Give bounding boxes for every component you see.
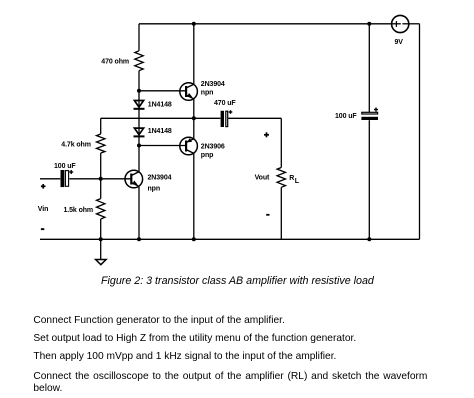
- transistor Q1 2N3904: [180, 83, 198, 101]
- wire mid rail left: [101, 117, 194, 119]
- svg-text:2N3904: 2N3904: [201, 81, 225, 88]
- svg-text:1N4148: 1N4148: [148, 102, 172, 109]
- node top-C: [192, 22, 196, 26]
- body instructions text: [33, 312, 427, 395]
- resistor RL: [277, 168, 285, 188]
- node output mid: [192, 116, 196, 120]
- diode D1 1N4148: [134, 101, 145, 109]
- source V1 9V: [391, 15, 409, 32]
- diode D2 1N4148: [134, 128, 145, 136]
- wire Q2 base: [139, 145, 186, 147]
- node bottom-A: [99, 237, 103, 241]
- label minus vout: [266, 214, 269, 216]
- svg-text:4.7k ohm: 4.7k ohm: [61, 141, 91, 148]
- transistor Q2 2N3906: [180, 137, 198, 155]
- label plus vout: [264, 132, 269, 137]
- wire column A upper: [100, 118, 102, 134]
- wire C1 to node A: [69, 178, 100, 180]
- capacitor C3 100uF rail: [361, 108, 378, 121]
- svg-text:1N4148: 1N4148: [148, 128, 172, 135]
- node Vin-A: [99, 177, 103, 181]
- wire Q3 emitter to bottom: [138, 186, 140, 239]
- node Q1 base: [137, 89, 141, 93]
- wire node to C2: [194, 117, 221, 119]
- svg-text:R: R: [289, 175, 294, 182]
- resistor R470 470 ohm: [135, 51, 143, 71]
- wire column E lower: [368, 120, 370, 239]
- wire 4.7k to Vin node: [100, 153, 102, 179]
- label Vin minus: [41, 228, 44, 230]
- capacitor C2 470uF: [221, 110, 233, 127]
- wire top rail: [139, 23, 392, 25]
- wire Vin input: [40, 178, 60, 180]
- svg-text:100 uF: 100 uF: [335, 113, 357, 120]
- node Q2 base: [137, 144, 141, 148]
- svg-text:Vout: Vout: [255, 175, 270, 182]
- wire Q3 base: [101, 178, 132, 180]
- wire 470ohm through diodes to Q3 collector: [138, 71, 140, 172]
- wire RL column upper: [280, 118, 282, 167]
- capacitor C1 100uF input: [61, 170, 74, 187]
- svg-text:1.5k ohm: 1.5k ohm: [64, 207, 94, 214]
- wire Q1 base: [139, 90, 186, 92]
- wire Q2 collector to bottom: [193, 153, 195, 239]
- node junction dots: [99, 22, 372, 242]
- node top-E: [367, 22, 371, 26]
- wire column E upper: [368, 24, 370, 112]
- wire 1.5k to bottom: [100, 219, 102, 239]
- svg-text:9V: 9V: [395, 39, 404, 46]
- svg-text:L: L: [295, 178, 300, 185]
- wire column C collector Q1: [193, 24, 195, 84]
- svg-text:Vin: Vin: [38, 206, 48, 213]
- wire top rail right of source: [408, 23, 419, 25]
- node bottom-E: [367, 237, 371, 241]
- svg-text:npn: npn: [201, 89, 214, 96]
- svg-text:npn: npn: [148, 186, 161, 193]
- ground: [96, 239, 107, 264]
- svg-text:100 uF: 100 uF: [54, 163, 76, 170]
- wire Q1 emitter to node: [193, 99, 195, 118]
- svg-text:470 ohm: 470 ohm: [101, 58, 129, 65]
- wire bottom rail: [40, 238, 420, 240]
- label Vin plus: [41, 184, 46, 189]
- svg-text:2N3906: 2N3906: [201, 144, 225, 151]
- resistor R1.5k: [97, 199, 105, 219]
- wire right vertical: [419, 24, 421, 240]
- wire node to Q2 emitter: [193, 118, 195, 138]
- svg-text:Figure 2: 3 transistor class A: Figure 2: 3 transistor class AB amplifie…: [101, 275, 375, 287]
- svg-text:470 uF: 470 uF: [214, 100, 236, 107]
- node bottom-C: [192, 237, 196, 241]
- transistor Q3 2N3904: [125, 170, 143, 188]
- wire C2 to RL column: [228, 117, 281, 119]
- svg-text:2N3904: 2N3904: [148, 175, 172, 182]
- svg-text:pnp: pnp: [201, 152, 214, 159]
- wire column B upper: [138, 24, 140, 51]
- node bottom-B: [137, 237, 141, 241]
- wire RL column lower: [280, 187, 282, 239]
- resistor R4.7k: [97, 134, 105, 153]
- wire Vin node to 1.5k: [100, 179, 102, 199]
